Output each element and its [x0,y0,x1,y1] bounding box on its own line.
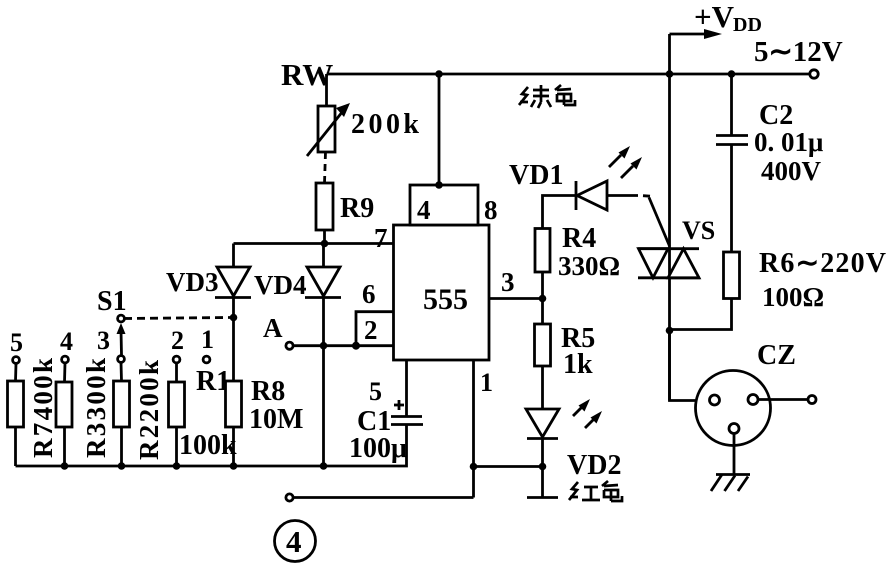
switch S1 wiper [117,315,126,362]
svg-text:2: 2 [364,315,378,345]
node pin1 rail [470,463,478,471]
svg-text:DD: DD [733,14,762,36]
node VD2 rail [539,463,547,471]
svg-text:1k: 1k [563,349,593,380]
resistor R9 [316,183,333,230]
LED VD1 [576,146,650,210]
node pin2 junction [352,342,360,350]
wire S1 dashed [124,318,230,319]
contact 2 [171,326,184,382]
wire R4 to node [541,272,544,324]
svg-text:1: 1 [201,325,214,354]
wire VD2 cathode [541,439,544,498]
power +VDD [670,0,762,73]
node VD4 A-line [320,342,328,350]
svg-text:VD1: VD1 [509,160,563,191]
socket CZ [696,371,771,446]
svg-text:8: 8 [484,195,498,225]
wire R3 bottom [63,427,66,466]
wire VD3 cathode down to R8 [232,298,235,382]
node rail R1 [173,462,181,470]
potentiometer RW [307,103,350,156]
svg-text:R3300k: R3300k [81,358,111,458]
wire pin6 stub [356,312,394,346]
resistor R6 [724,252,740,299]
svg-text:7: 7 [374,223,388,253]
wire RW top lead [325,74,328,106]
IC 555 pins 4/8 box [410,185,478,225]
node rail R3 [61,462,69,470]
node box top [435,181,443,189]
IC 555 [394,225,490,360]
svg-text:R2200k: R2200k [134,360,164,460]
wire R7 bottom [14,427,17,466]
wire R9 bottom [323,230,326,244]
node rail 439 [435,70,443,78]
wire main vertical conductor [668,74,671,401]
wire R4 top to VD1 [543,196,577,229]
svg-text:100k: 100k [179,430,237,461]
figure number 4 [275,521,316,562]
node pin3/R4/R5 [539,295,547,303]
capacitor C1 [391,400,423,425]
wire bottom rail [16,425,407,466]
wire junction to CZ [670,331,711,401]
wire R6 bottom to junction [670,299,732,330]
wire VD4 cathode down [322,298,325,467]
wire pin5 lead [405,360,408,416]
wire CZ bottom pin [733,434,736,475]
svg-text:5∼12V: 5∼12V [754,36,843,68]
svg-text:0. 01μ: 0. 01μ [754,127,823,157]
svg-text:200k: 200k [351,109,419,140]
LED VD2 [526,399,602,439]
svg-text:100μ: 100μ [349,433,407,464]
svg-text:CZ: CZ [757,340,796,371]
node rail C2 [728,70,736,78]
wire R8 bottom [232,427,235,466]
contact 5 [10,328,23,381]
diode VD4 [305,267,341,298]
wire pin3 [489,297,543,300]
wire pin1 lead [472,360,475,498]
wire dashed pot to R9 [325,152,326,183]
wire VD4 top stub [322,244,325,268]
svg-text:3: 3 [97,326,110,355]
wire pin7 line [234,242,394,245]
terminal A [286,342,293,349]
svg-text:5: 5 [10,328,23,357]
node rail main [666,70,674,78]
wire pin2 stub [356,344,394,347]
diode VD3 [215,267,251,298]
svg-text:4: 4 [417,195,431,225]
wire VD1 gate diagonal [649,198,670,247]
resistor R7 [8,381,24,427]
contact 3 [97,326,122,381]
svg-text:+V: +V [694,0,735,34]
node rail R2 [118,462,126,470]
svg-text:4: 4 [60,327,73,356]
svg-text:100Ω: 100Ω [762,282,824,312]
resistor R8 [226,381,242,427]
svg-text:400V: 400V [761,156,822,186]
svg-text:R7400k: R7400k [28,358,58,458]
node R9/VD4 junction [321,240,329,248]
node S1 dashed junction [230,314,238,322]
svg-text:VD2: VD2 [567,450,621,481]
wire R1 bottom [175,427,178,466]
resistor R2 [114,381,130,427]
svg-text:VD4: VD4 [254,270,307,300]
svg-text:R4: R4 [562,223,596,254]
ground chassis [711,475,750,492]
svg-text:R9: R9 [340,193,374,224]
label green [519,85,575,108]
wire pin1 to VD2 [474,465,543,468]
svg-text:2: 2 [171,326,184,355]
svg-text:VS: VS [682,216,715,245]
svg-text:5: 5 [369,377,382,406]
svg-text:R6∼220V: R6∼220V [759,248,886,279]
resistor R3 [56,382,72,427]
svg-text:330Ω: 330Ω [558,251,620,281]
contact 4 [60,327,73,382]
wire A line [293,344,356,347]
svg-text:10M: 10M [249,404,303,435]
triac VS [638,249,700,278]
wire R2 bottom [120,427,123,466]
wire bottom terminal line [293,496,474,499]
svg-text:1: 1 [480,368,493,397]
wire VD3 top stub [232,244,235,268]
resistor R1 [169,382,185,427]
terminal top-right [810,70,818,78]
capacitor C2 [716,74,748,252]
terminal CZ right [808,396,816,404]
resistor R5 [535,324,551,366]
terminal bottom [286,494,293,501]
node rail R8 [230,462,238,470]
resistor R4 [535,229,550,273]
label red [569,481,622,501]
svg-text:VD3: VD3 [166,267,219,297]
svg-text:S1: S1 [97,286,127,317]
svg-text:555: 555 [423,283,468,316]
node rail VD4 [320,462,328,470]
node triac R6 junction [666,327,674,335]
contact 1 [201,325,214,363]
wire R5 to VD2 [541,366,544,409]
svg-text:R8: R8 [251,376,285,407]
wire VDD to 4/8 box [438,74,441,185]
svg-text:6: 6 [362,279,376,309]
ground VD2 [527,496,558,499]
svg-text:4: 4 [286,524,302,559]
wire CZ right pin [758,398,808,401]
svg-text:3: 3 [501,267,515,297]
wire top rail [327,73,811,76]
svg-text:A: A [263,313,283,343]
